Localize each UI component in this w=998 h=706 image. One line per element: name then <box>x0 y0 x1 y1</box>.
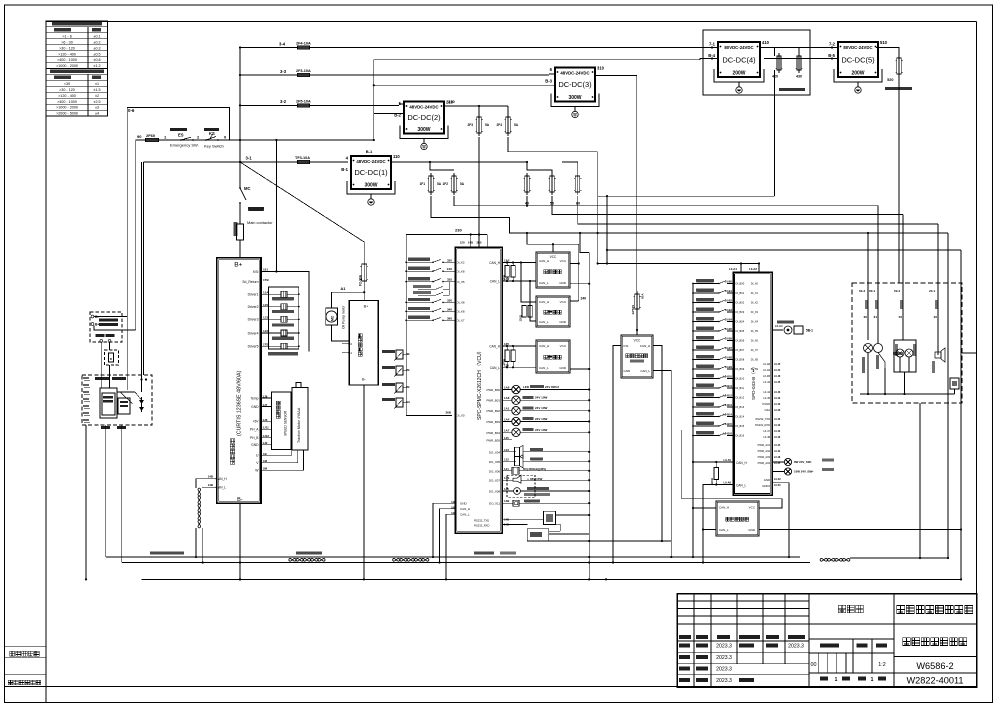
CAN module 2 <box>536 296 570 327</box>
svg-text:DO_X07: DO_X07 <box>489 479 500 483</box>
svg-text:GND: GND <box>559 281 567 285</box>
fuse TF3-10A <box>298 160 310 164</box>
svg-text:DI_X9: DI_X9 <box>751 367 759 371</box>
steering encoder CAN box <box>716 501 759 536</box>
battery left cable down <box>85 425 87 579</box>
svg-text:L0-B11: L0-B11 <box>723 384 732 388</box>
svg-text:60-1: 60-1 <box>869 289 875 293</box>
svg-text:2F3-10A: 2F3-10A <box>296 69 311 73</box>
svg-text:Oil Pump motor: Oil Pump motor <box>342 305 346 329</box>
svg-text:1J5: 1J5 <box>263 303 268 307</box>
wire 3-3 <box>240 74 549 76</box>
svg-text:310: 310 <box>597 66 605 71</box>
CAN bus line lower <box>122 562 440 564</box>
svg-text:420: 420 <box>772 75 778 79</box>
svg-text:PWR_B01: PWR_B01 <box>487 399 501 403</box>
DC-DC1 output net 110 <box>391 161 527 163</box>
bus junction dots <box>195 556 197 558</box>
svg-text:ES: ES <box>178 133 184 138</box>
svg-text:DI_B10: DI_B10 <box>736 377 745 381</box>
svg-text:CAN_L: CAN_L <box>539 320 549 324</box>
svg-text:L0-B10: L0-B10 <box>723 375 732 379</box>
curtis CAN twisted pair down <box>198 488 201 528</box>
svg-text:DI_B03: DI_B03 <box>736 310 745 314</box>
SPD indicator outputs <box>772 461 784 463</box>
svg-text:RS232_TXD: RS232_TXD <box>474 519 489 523</box>
dc-dc converter DC-DC(1) 300W <box>351 156 391 189</box>
title block <box>677 594 977 688</box>
svg-text:GND: GND <box>559 320 567 324</box>
svg-text:L0-48: L0-48 <box>774 456 781 459</box>
svg-text:2F4-10A: 2F4-10A <box>296 42 311 46</box>
svg-text:CAN_H: CAN_H <box>216 477 228 481</box>
svg-text:L0-46: L0-46 <box>774 409 781 412</box>
svg-text:5A: 5A <box>485 123 490 127</box>
svg-text:36B: 36B <box>445 411 451 415</box>
svg-text:SPEED SENSOR: SPEED SENSOR <box>284 410 288 436</box>
svg-text:B+: B+ <box>95 323 99 327</box>
svg-text:230: 230 <box>455 228 462 233</box>
svg-text:DC(400kHz)(36V): DC(400kHz)(36V) <box>523 467 546 471</box>
svg-text:14B: 14B <box>208 483 213 487</box>
svg-text:20-1: 20-1 <box>929 289 935 293</box>
svg-text:240: 240 <box>581 297 587 301</box>
svg-text:60: 60 <box>576 202 580 206</box>
svg-text:DI_B12: DI_B12 <box>736 396 745 400</box>
svg-text:61: 61 <box>874 315 878 319</box>
svg-text:1A8: 1A8 <box>504 396 510 400</box>
svg-text:GND: GND <box>748 528 756 532</box>
module wiring to rail <box>570 283 589 285</box>
svg-text:L0-B2: L0-B2 <box>725 299 733 303</box>
svg-text:3-3: 3-3 <box>280 69 287 74</box>
svg-text:DI_B01: DI_B01 <box>736 291 745 295</box>
svg-text:F2-30A: F2-30A <box>359 274 363 286</box>
svg-text:3-4: 3-4 <box>279 42 286 47</box>
svg-text:L0-50: L0-50 <box>774 484 781 487</box>
svg-text:60: 60 <box>864 315 868 319</box>
svg-text:Key Switch: Key Switch <box>204 144 224 149</box>
svg-text:A1: A1 <box>340 286 346 291</box>
svg-text:L0-A2: L0-A2 <box>749 267 757 271</box>
svg-text:7-1: 7-1 <box>709 42 716 47</box>
svg-text:CAN_L: CAN_L <box>216 486 227 490</box>
svg-text:L0-46: L0-46 <box>774 436 781 439</box>
svg-text:DI_B07: DI_B07 <box>736 348 745 352</box>
svg-text:DI_X8: DI_X8 <box>457 301 465 305</box>
svg-text:DI_K2: DI_K2 <box>457 261 465 265</box>
svg-text:DO_X04: DO_X04 <box>489 450 500 454</box>
svg-text:L0-44: L0-44 <box>763 390 770 394</box>
svg-text:2023.3: 2023.3 <box>716 655 732 661</box>
small module box <box>544 511 556 524</box>
svg-text:EPS09: EPS09 <box>631 305 635 315</box>
battery diodes right <box>141 397 143 412</box>
svg-text:+5V: +5V <box>253 420 260 424</box>
svg-text:L0-B6: L0-B6 <box>725 337 733 341</box>
svg-text:PWM_A04: PWM_A04 <box>758 461 771 465</box>
svg-text:CAN_H: CAN_H <box>539 300 549 304</box>
traction controller CURTIS 1236SE box <box>217 258 261 503</box>
svg-text:GND: GND <box>251 443 259 447</box>
fuse F2-30A <box>362 264 367 281</box>
steering pump controller box <box>349 301 378 386</box>
encoder wires <box>693 507 716 509</box>
svg-text:1A1: 1A1 <box>504 407 510 411</box>
svg-text:>1000 - 2000: >1000 - 2000 <box>56 64 78 68</box>
svg-text:320: 320 <box>447 258 452 262</box>
dc-dc converter DC-DC(5) 200W <box>838 42 878 77</box>
svg-text:DI_B05: DI_B05 <box>736 329 745 333</box>
svg-text:DI_B13: DI_B13 <box>736 405 745 409</box>
svg-text:2F60: 2F60 <box>146 133 156 138</box>
fuse 40 output run <box>526 196 528 206</box>
long distribution wires right <box>598 152 775 196</box>
charger CAN wires down <box>100 342 102 388</box>
svg-text:CAN_L: CAN_L <box>640 369 650 373</box>
svg-text:PWM_A01: PWM_A01 <box>758 443 771 447</box>
svg-text:2F4: 2F4 <box>497 123 503 127</box>
svg-text:120Ω: 120Ω <box>519 315 523 321</box>
svg-text:TF3-10A: TF3-10A <box>295 156 310 160</box>
dc-dc converter DC-DC(3) 300W <box>555 68 595 102</box>
bus twisted sections <box>289 558 326 561</box>
svg-text:PWR_B00: PWR_B00 <box>487 388 501 392</box>
svg-text:CAN_H: CAN_H <box>736 461 748 465</box>
svg-text:14B: 14B <box>504 499 509 503</box>
svg-text:DI_B02: DI_B02 <box>736 301 745 305</box>
VCU controller box SPC-SPMC-X2612CH <box>455 247 502 533</box>
svg-text:L0-48: L0-48 <box>763 435 770 439</box>
svg-text:L0-B5: L0-B5 <box>725 327 733 331</box>
main contactor MC <box>239 140 241 185</box>
svg-text:L0-45: L0-45 <box>774 363 781 366</box>
svg-text:1J1: 1J1 <box>504 467 509 471</box>
svg-text:DI_B09: DI_B09 <box>736 367 745 371</box>
drops to lamp box <box>877 206 879 283</box>
svg-text:0-6: 0-6 <box>128 108 135 113</box>
svg-text:50A: 50A <box>641 293 645 299</box>
svg-text:L0-A8: L0-A8 <box>763 362 770 366</box>
fuse group near DC-DC1 <box>430 162 454 170</box>
svg-text:CAN_L: CAN_L <box>539 366 549 370</box>
svg-text:24V 8W×2: 24V 8W×2 <box>545 385 559 389</box>
svg-text:W2822-40011: W2822-40011 <box>906 676 963 686</box>
horn right <box>937 340 939 355</box>
svg-text:80VDC-24VDC: 80VDC-24VDC <box>724 45 753 50</box>
svg-text:DC-DC(1): DC-DC(1) <box>354 168 388 177</box>
pump motor M2 <box>326 308 338 325</box>
fuse 60 output run <box>578 196 938 224</box>
svg-text:3-2: 3-2 <box>280 99 287 104</box>
svg-text:DI_B16: DI_B16 <box>736 434 745 438</box>
battery dashed box <box>82 375 152 425</box>
svg-text:±1.5: ±1.5 <box>93 88 100 92</box>
svg-text:2023.3: 2023.3 <box>716 678 732 684</box>
fuse 2F5-10A <box>298 104 310 108</box>
wires to DC-DC5 inputs <box>764 47 838 49</box>
svg-text:>6 - 30: >6 - 30 <box>61 40 73 44</box>
svg-text:DC-DC(4): DC-DC(4) <box>722 55 756 64</box>
svg-text:L0-45: L0-45 <box>763 396 770 400</box>
right bus connections <box>850 557 948 559</box>
svg-text:DI_K8: DI_K8 <box>457 310 465 314</box>
svg-text:Driver3: Driver3 <box>248 318 259 322</box>
svg-text:GSA: GSA <box>765 408 771 412</box>
svg-text:14B: 14B <box>208 475 213 479</box>
svg-text:5A: 5A <box>514 123 519 127</box>
svg-text:145: 145 <box>504 436 509 440</box>
svg-text:PH_B: PH_B <box>250 436 259 440</box>
svg-text:VCC: VCC <box>560 300 567 304</box>
power bus vertical <box>239 48 241 163</box>
svg-text:1A9: 1A9 <box>504 386 510 390</box>
svg-text:48VDC-24VDC: 48VDC-24VDC <box>560 71 589 76</box>
svg-text:CAN_H: CAN_H <box>640 344 650 348</box>
svg-text:±0.3: ±0.3 <box>93 46 100 50</box>
SPD CAN resistor <box>714 468 719 480</box>
VCU left switch rail <box>405 235 407 416</box>
svg-text:D1: D1 <box>348 351 352 355</box>
svg-text:48VDC-24VDC: 48VDC-24VDC <box>356 159 385 164</box>
CAN resistors pair1 <box>522 306 526 318</box>
fuse 430 <box>797 56 801 70</box>
svg-text:PWM_A03: PWM_A03 <box>758 455 771 459</box>
SPD left switch inputs <box>692 283 694 285</box>
wire 3-2 <box>240 104 399 106</box>
svg-text:MC: MC <box>244 186 251 191</box>
B- wire left side <box>126 145 128 390</box>
svg-text:80VDC-24VDC: 80VDC-24VDC <box>843 45 872 50</box>
SPD-043 display unit box <box>733 272 772 495</box>
svg-text:DI_B15: DI_B15 <box>736 424 745 428</box>
svg-text:L0-A5: L0-A5 <box>724 458 732 462</box>
svg-text:110: 110 <box>393 154 400 159</box>
DC-DC4 output 410 <box>760 47 775 49</box>
wire from key switch to bus <box>227 139 374 141</box>
svg-text:3-1: 3-1 <box>246 156 253 161</box>
valve coil row 3 <box>261 318 281 320</box>
svg-text:2023.3: 2023.3 <box>788 644 804 650</box>
svg-text:VCC: VCC <box>634 339 641 343</box>
svg-text:DI_X0: DI_X0 <box>751 282 759 286</box>
svg-text:B-1: B-1 <box>341 167 348 172</box>
svg-text:VCC: VCC <box>749 506 756 510</box>
svg-text:5A: 5A <box>460 182 465 186</box>
svg-text:DI_X7: DI_X7 <box>457 319 465 323</box>
svg-text:LED: LED <box>523 385 530 389</box>
svg-text:00: 00 <box>811 662 817 668</box>
svg-text:GND: GND <box>624 369 632 373</box>
svg-text:1: 1 <box>835 677 838 683</box>
battery main cables <box>141 162 143 392</box>
svg-text:L0-43: L0-43 <box>774 397 781 400</box>
wire 3-4 <box>240 47 718 49</box>
svg-text:1F2: 1F2 <box>443 182 449 186</box>
svg-text:GND: GND <box>251 405 259 409</box>
svg-text:120Ω: 120Ω <box>502 275 506 281</box>
lamp box bottom bus <box>860 393 955 395</box>
svg-text:5A: 5A <box>437 182 442 186</box>
fuse pair B <box>477 117 482 133</box>
svg-text:L0-B9: L0-B9 <box>725 365 733 369</box>
svg-text:120Ω: 120Ω <box>502 359 506 365</box>
emergency switch ES <box>170 128 187 131</box>
svg-text:325: 325 <box>447 278 452 282</box>
svg-text:DI_B08: DI_B08 <box>736 358 745 362</box>
vertical x589 lower <box>588 541 590 579</box>
svg-text:L0-47: L0-47 <box>763 429 770 433</box>
svg-text:±2.5: ±2.5 <box>93 100 100 104</box>
analog rail <box>406 352 452 415</box>
svg-text:50: 50 <box>899 315 903 319</box>
svg-text:2F3: 2F3 <box>468 123 474 127</box>
terminating resistor dashed box <box>105 350 119 365</box>
svg-text:DI_B04: DI_B04 <box>736 320 745 324</box>
svg-text:DI_X0: DI_X0 <box>457 414 465 418</box>
valve coil row 4 <box>261 332 281 334</box>
svg-text:B-4: B-4 <box>708 53 715 58</box>
branch to B-3 and DC-DC4 <box>374 60 700 140</box>
lower module box <box>527 529 549 541</box>
svg-text:1X0: 1X0 <box>447 267 453 271</box>
module2 CAN wires <box>521 263 536 303</box>
svg-text:L0-A4: L0-A4 <box>775 324 783 328</box>
svg-text:DI_X3: DI_X3 <box>751 310 759 314</box>
wire to pump motor M2 <box>332 292 365 308</box>
svg-text:L0-B13: L0-B13 <box>723 403 732 407</box>
svg-text:24V 10W: 24V 10W <box>535 417 548 421</box>
traction motor box <box>292 387 308 450</box>
svg-text:<30: <30 <box>64 82 70 86</box>
svg-text:L0-46: L0-46 <box>774 418 781 421</box>
svg-text:B+: B+ <box>364 305 370 309</box>
svg-text:GND: GND <box>559 366 567 370</box>
svg-text:200W: 200W <box>732 71 745 77</box>
svg-text:±0.1: ±0.1 <box>93 34 100 38</box>
svg-text:1J3: 1J3 <box>504 448 509 452</box>
svg-text:L0-B0: L0-B0 <box>725 280 733 284</box>
svg-text:>120 - 400: >120 - 400 <box>58 52 76 56</box>
svg-text:VCC: VCC <box>550 255 557 259</box>
fuse 520 <box>897 58 902 74</box>
svg-text:120: 120 <box>460 241 465 245</box>
svg-text:360: 360 <box>447 316 452 320</box>
svg-text:CAN_H: CAN_H <box>719 506 729 510</box>
svg-text:20: 20 <box>934 315 938 319</box>
svg-text:±4: ±4 <box>95 112 99 116</box>
svg-text:300W: 300W <box>568 95 581 101</box>
svg-text:101: 101 <box>263 268 268 272</box>
svg-text:L0-B16: L0-B16 <box>723 432 732 436</box>
svg-text:DI_B14: DI_B14 <box>736 415 745 419</box>
svg-text:PWR_B02: PWR_B02 <box>487 409 501 413</box>
svg-text:5B-1: 5B-1 <box>806 329 813 333</box>
fuse 2F3-10A <box>298 73 310 77</box>
svg-text:B-5: B-5 <box>828 53 835 58</box>
svg-text:CAN_L: CAN_L <box>490 280 501 284</box>
svg-text:CAN_H: CAN_H <box>539 259 549 263</box>
svg-text:14B: 14B <box>468 241 473 245</box>
svg-text:>400 - 1000: >400 - 1000 <box>57 58 77 62</box>
svg-text:Main contactor: Main contactor <box>247 220 273 225</box>
svg-text:L0-B7: L0-B7 <box>725 346 733 350</box>
svg-text:DC-DC(3): DC-DC(3) <box>558 80 592 89</box>
svg-text:8W 24V_SW•: 8W 24V_SW• <box>794 460 812 464</box>
svg-text:300W: 300W <box>417 127 430 133</box>
svg-text:±1.2: ±1.2 <box>93 64 100 68</box>
svg-text:B-3: B-3 <box>545 79 552 84</box>
svg-text:L0-B3: L0-B3 <box>725 308 733 312</box>
svg-text:>30 - 120: >30 - 120 <box>59 46 75 50</box>
svg-text:Driver4: Driver4 <box>248 331 259 335</box>
speaker dashed row <box>507 475 535 497</box>
valve coil row 1 <box>261 293 281 295</box>
svg-text:PWM_A02: PWM_A02 <box>758 449 771 453</box>
svg-text:L0-42: L0-42 <box>774 450 781 453</box>
svg-text:RS232_RXD: RS232_RXD <box>474 524 489 528</box>
svg-text:24V 10W: 24V 10W <box>535 428 548 432</box>
CAN terminating resistors pair0 <box>505 266 509 278</box>
pump aux vertical <box>336 385 338 563</box>
diagonal wire from key bus <box>240 162 364 242</box>
svg-text:145: 145 <box>504 487 509 491</box>
svg-text:DO_X06: DO_X06 <box>489 469 500 473</box>
svg-text:L0-42: L0-42 <box>774 369 781 372</box>
bms bits <box>118 398 130 414</box>
svg-text:W6586-2: W6586-2 <box>916 661 953 671</box>
battery pack symbol <box>100 388 117 418</box>
svg-text:CAN_L: CAN_L <box>490 366 501 370</box>
svg-text:430: 430 <box>796 75 802 79</box>
svg-text:120Ω: 120Ω <box>710 478 714 484</box>
svg-text:510: 510 <box>880 40 888 45</box>
svg-text:GND: GND <box>764 478 770 482</box>
svg-text:(CURTIS 1236SE 48V/60A): (CURTIS 1236SE 48V/60A) <box>237 371 243 436</box>
svg-text:24V 10W: 24V 10W <box>535 396 548 400</box>
svg-text:KSI: KSI <box>624 344 629 348</box>
svg-text:330: 330 <box>447 298 452 302</box>
battery CAN out <box>101 426 110 429</box>
fuse group 40 50 60 <box>527 162 552 176</box>
misc long wire <box>478 105 480 107</box>
wire 3-3 to DC-DC3 pins <box>549 73 555 75</box>
svg-text:KSI: KSI <box>253 270 259 274</box>
svg-text:PWR_B03: PWR_B03 <box>487 420 501 424</box>
svg-text:>30 - 120: >30 - 120 <box>59 88 75 92</box>
CAN module smart drive <box>536 340 570 373</box>
svg-text:Emergency SW.: Emergency SW. <box>170 143 199 148</box>
svg-text:L0-46: L0-46 <box>774 391 781 394</box>
svg-text:1J2: 1J2 <box>263 329 268 333</box>
svg-text:Sd_Return: Sd_Return <box>242 280 258 284</box>
svg-text:L0-A9: L0-A9 <box>763 368 770 372</box>
svg-text:VCC: VCC <box>560 259 567 263</box>
svg-text:PGND: PGND <box>763 402 771 406</box>
svg-text:L0-4B: L0-4B <box>763 374 770 378</box>
svg-text:DI_X2: DI_X2 <box>751 301 759 305</box>
CAN module battery meter <box>536 252 570 288</box>
wire 3-1 <box>144 161 348 163</box>
svg-text:24V 10W: 24V 10W <box>535 406 548 410</box>
valve coil row 2 <box>261 306 281 308</box>
svg-text:1J3: 1J3 <box>263 316 268 320</box>
SPD rail down <box>692 461 694 463</box>
VCU left switch inputs <box>405 261 407 263</box>
bus cable labels <box>150 552 184 555</box>
svg-text:±0.5: ±0.5 <box>93 52 100 56</box>
small device right <box>950 378 959 389</box>
